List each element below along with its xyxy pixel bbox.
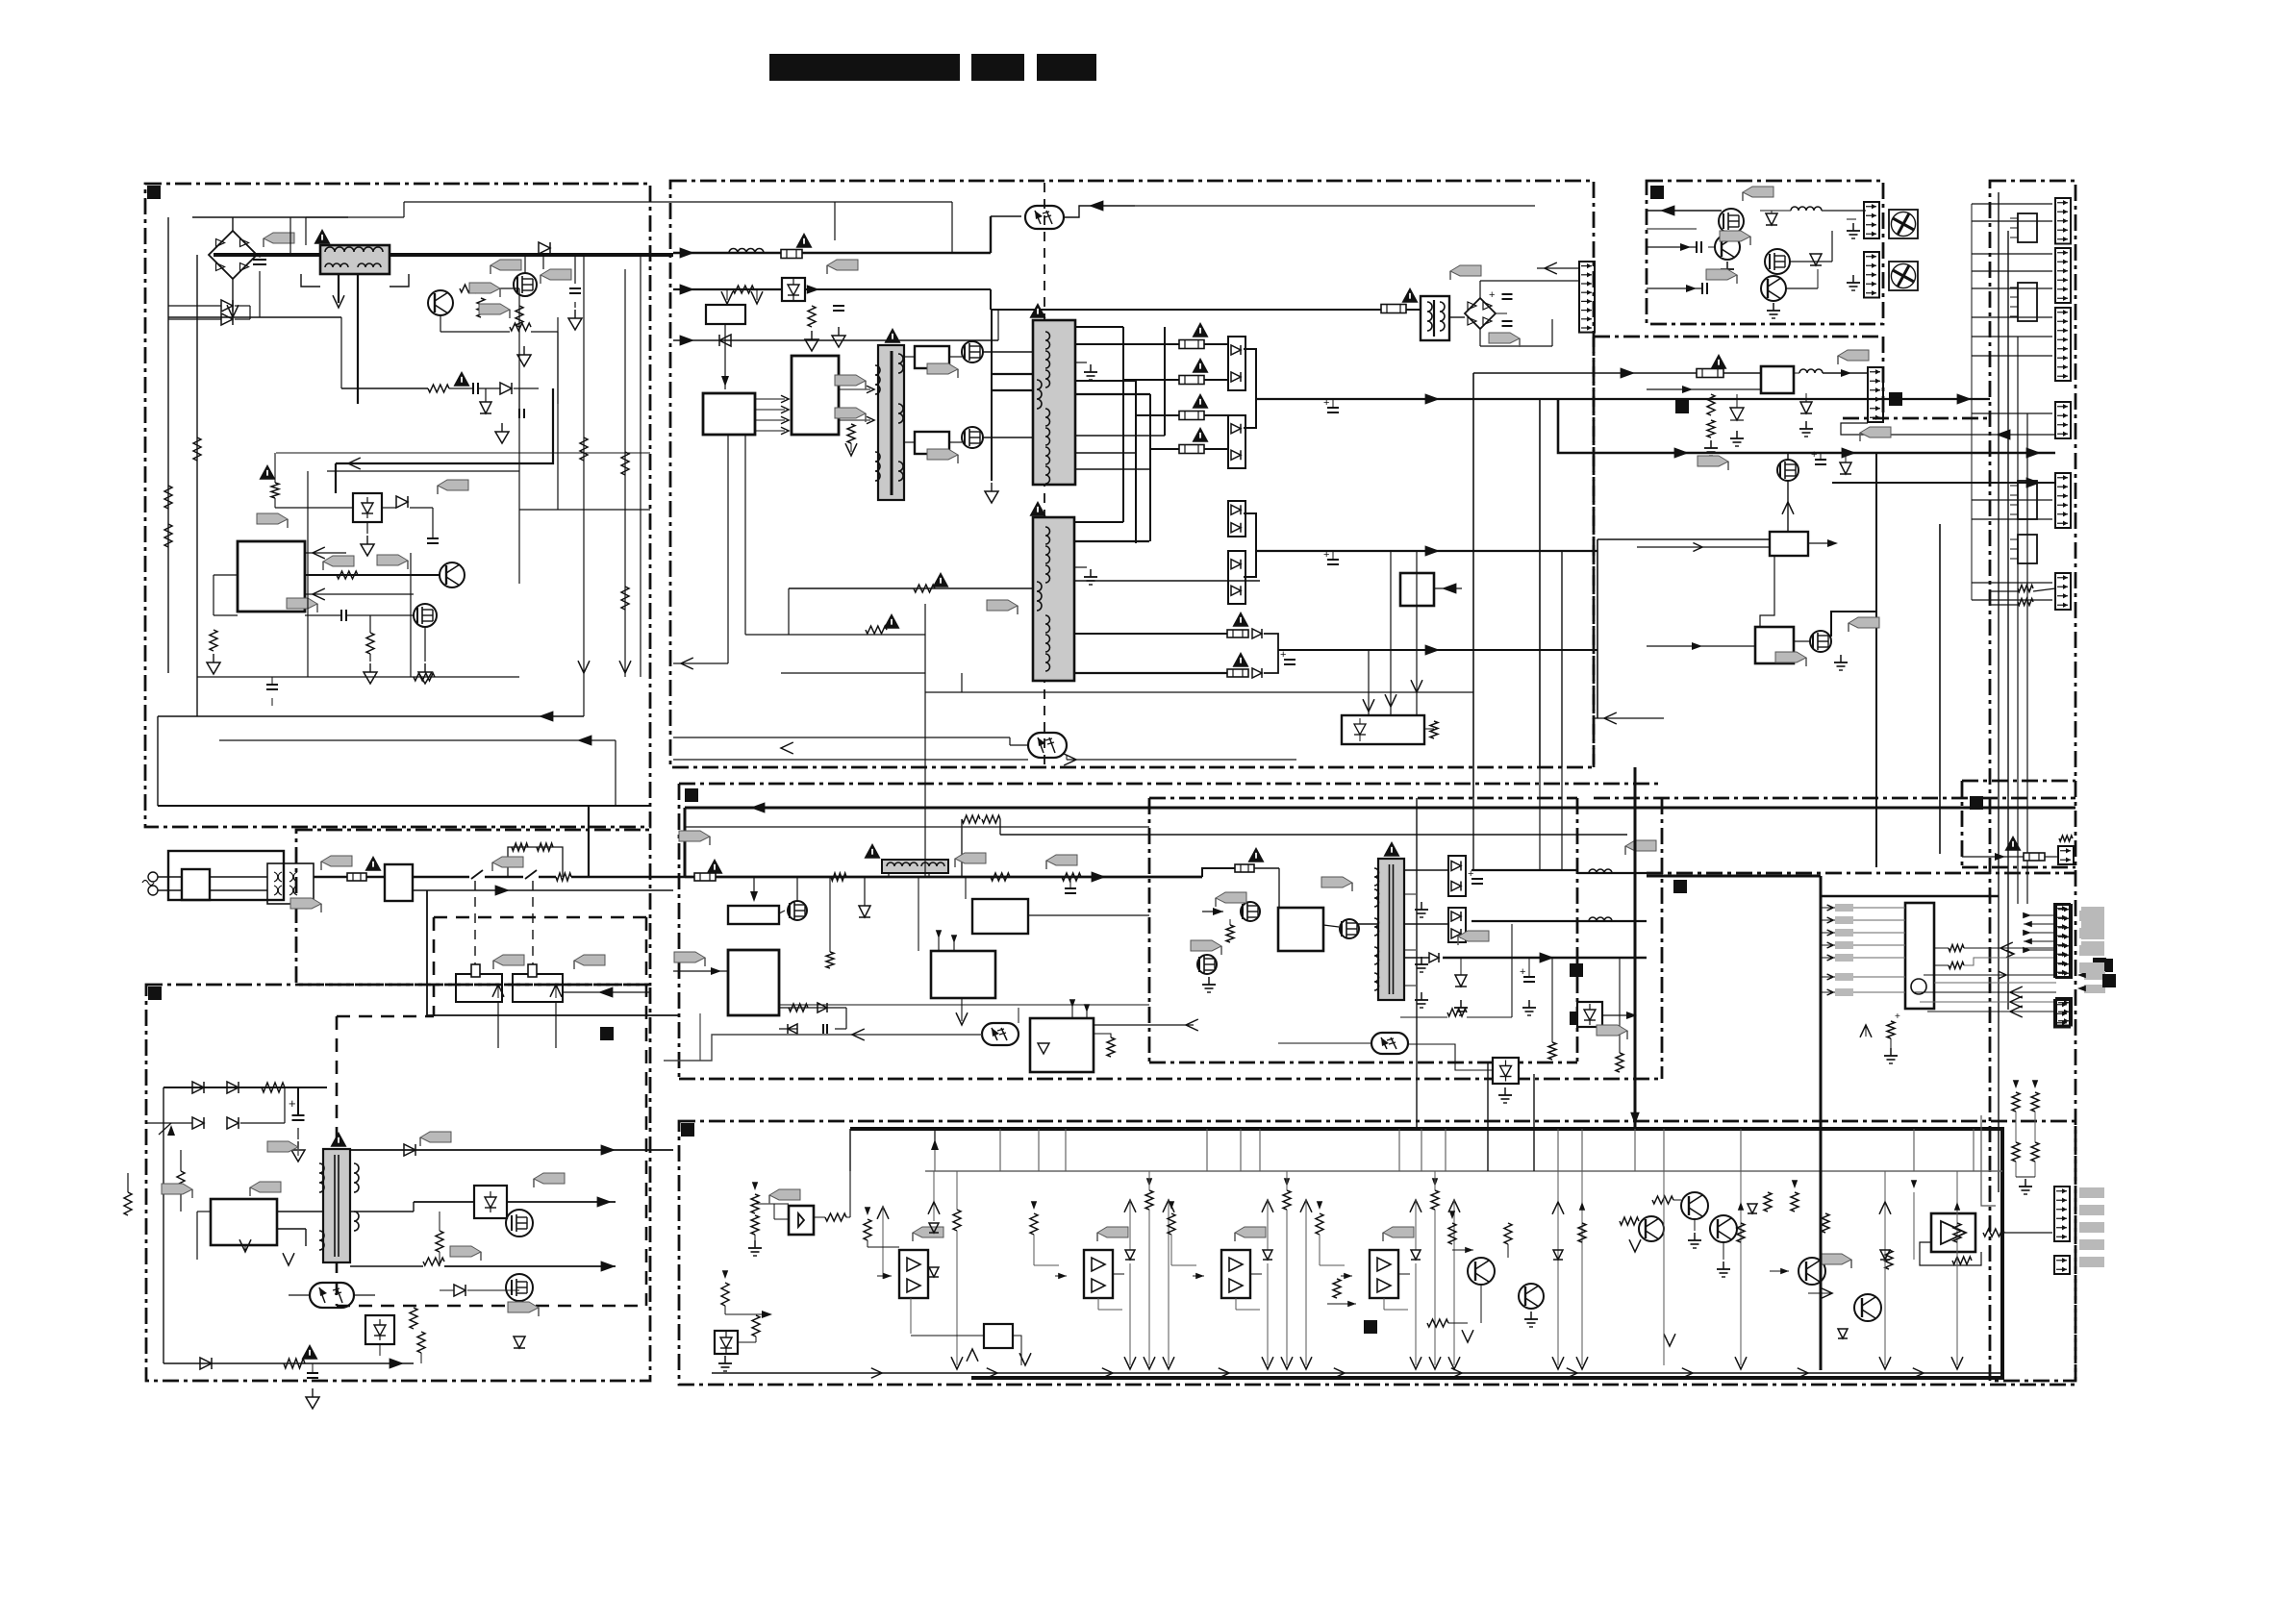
svg-text:+: + bbox=[1520, 966, 1525, 978]
svg-text:+: + bbox=[1280, 649, 1286, 661]
svg-text:+: + bbox=[1323, 549, 1329, 561]
svg-text:+: + bbox=[1895, 1012, 1900, 1022]
svg-text:+: + bbox=[1323, 397, 1329, 409]
svg-text:+: + bbox=[1489, 289, 1495, 301]
svg-text:+: + bbox=[289, 1096, 296, 1111]
svg-text:+: + bbox=[1811, 449, 1817, 461]
